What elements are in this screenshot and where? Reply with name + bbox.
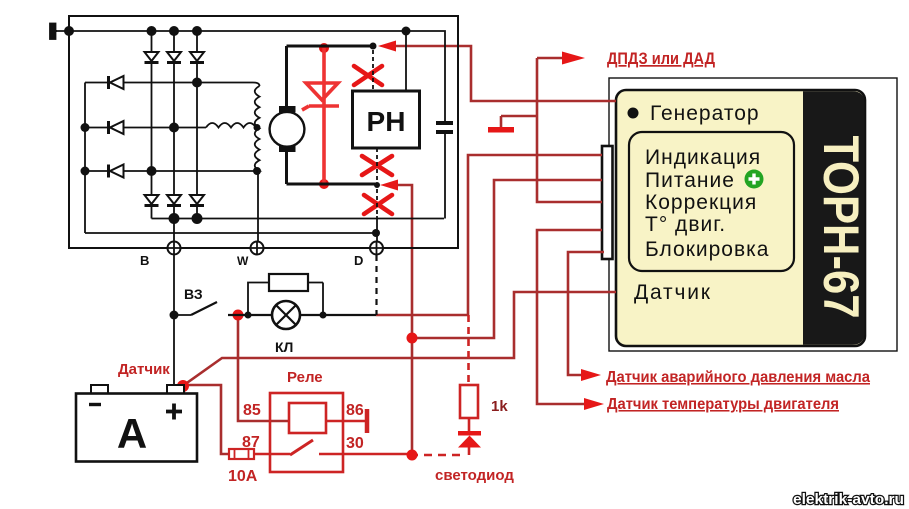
svg-text:Датчик температуры двигателя: Датчик температуры двигателя bbox=[607, 396, 839, 413]
svg-text:D: D bbox=[354, 253, 363, 268]
svg-text:Т° двиг.: Т° двиг. bbox=[645, 213, 726, 236]
svg-text:ТОРН-67: ТОРН-67 bbox=[813, 136, 869, 319]
svg-text:B: B bbox=[140, 253, 149, 268]
svg-text:Индикация: Индикация bbox=[645, 146, 761, 169]
svg-text:Генератор: Генератор bbox=[650, 102, 760, 125]
svg-text:А: А bbox=[117, 410, 147, 457]
svg-text:85: 85 bbox=[243, 402, 261, 419]
svg-text:Датчик аварийного давления мас: Датчик аварийного давления масла bbox=[606, 369, 870, 386]
svg-text:ДПДЗ или ДАД: ДПДЗ или ДАД bbox=[607, 49, 715, 68]
svg-text:КЛ: КЛ bbox=[275, 339, 293, 355]
svg-text:РН: РН bbox=[367, 106, 406, 137]
svg-text:86: 86 bbox=[346, 402, 364, 419]
svg-text:1k: 1k bbox=[491, 398, 508, 415]
svg-text:Питание: Питание bbox=[645, 169, 735, 192]
svg-text:10А: 10А bbox=[228, 468, 258, 485]
svg-text:30: 30 bbox=[346, 435, 364, 452]
svg-text:87: 87 bbox=[242, 434, 260, 451]
svg-text:Коррекция: Коррекция bbox=[645, 191, 757, 214]
svg-text:Датчик: Датчик bbox=[118, 361, 170, 378]
svg-text:светодиод: светодиод bbox=[435, 467, 514, 484]
svg-text:Блокировка: Блокировка bbox=[645, 238, 769, 261]
svg-text:elektrik-avto.ru: elektrik-avto.ru bbox=[793, 491, 904, 508]
svg-text:Реле: Реле bbox=[287, 369, 323, 386]
svg-text:ВЗ: ВЗ bbox=[184, 286, 203, 302]
svg-text:Датчик: Датчик bbox=[634, 281, 712, 304]
svg-text:W: W bbox=[237, 254, 249, 268]
